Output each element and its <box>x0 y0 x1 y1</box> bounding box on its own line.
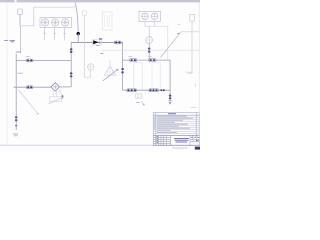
wire: diamond to riser <box>59 86 71 88</box>
valve V6 <box>127 89 137 92</box>
label 2 <box>177 32 180 34</box>
sheet note above table <box>191 107 197 109</box>
wire: upper-left run to top rail <box>20 7 74 26</box>
coupling on left pipe <box>15 116 18 118</box>
fan M5 <box>142 13 149 20</box>
title block designation text <box>174 138 189 142</box>
fan M7 (single circle) <box>146 37 153 44</box>
upper mid component box <box>102 12 112 30</box>
wire: main line y=42.4 <box>71 41 122 43</box>
filter F1 (diamond) <box>51 83 59 91</box>
end riser x=170 <box>169 60 171 101</box>
junction node (black dot) <box>77 32 80 35</box>
couplings on riser 71 <box>70 48 73 50</box>
two-fan block <box>139 11 161 21</box>
label below arrow <box>13 134 18 136</box>
label above V1 <box>26 55 30 57</box>
paper background <box>0 0 200 150</box>
frame right edge <box>198 3 200 112</box>
wire: left branch y=87.6 <box>14 86 52 88</box>
arrow end of left pipe <box>15 125 18 128</box>
label near arrow <box>96 45 99 47</box>
title block small marks <box>157 137 199 143</box>
table row texts <box>157 116 193 132</box>
wire: left supply pipe lower <box>15 54 17 130</box>
valve V7 <box>149 89 159 92</box>
top dark scan band <box>0 0 200 2</box>
check valve (black arrow) <box>93 39 102 45</box>
receiver R2 (right top rect) <box>190 15 195 22</box>
label above V4 <box>129 56 133 58</box>
fan M3 <box>62 19 69 26</box>
compressor block (three fans) <box>40 18 72 28</box>
table header text <box>168 113 176 115</box>
wire: left supply pipe upper <box>19 26 21 54</box>
riser at x=71.2 <box>70 42 72 87</box>
gray rail y=50.2 <box>101 49 200 51</box>
dark corner blob <box>195 147 200 150</box>
sensor mark <box>99 38 102 39</box>
title block <box>153 135 199 145</box>
aux compressor branch <box>83 11 87 15</box>
label left pipe <box>4 41 15 42</box>
fan M2 <box>52 19 59 26</box>
drain unit below filter F1 <box>54 91 57 97</box>
fan M1 <box>42 19 49 26</box>
fan M4 <box>88 64 94 70</box>
tank T1 (top-left rectangle) <box>18 9 23 14</box>
label mid pipe <box>16 51 21 53</box>
parts table <box>153 113 199 136</box>
valve V5 <box>149 59 156 62</box>
valve V8 <box>160 89 162 91</box>
label above V5 <box>148 56 152 58</box>
valve V1 on left branch <box>26 59 33 62</box>
drain unit below lower manifold <box>136 94 142 99</box>
frame left edge <box>6 3 8 145</box>
curved drop line from top rail <box>75 3 78 34</box>
wire: left branch y=60.4 <box>16 59 71 61</box>
wire: dot down to main line <box>77 34 79 43</box>
frame bottom line <box>0 144 200 146</box>
fan M6 <box>151 13 158 20</box>
component box A between manifolds <box>134 63 142 90</box>
exhaust marks right <box>186 72 193 73</box>
adjust arrow through muffler <box>103 70 118 81</box>
valve V2 on lower left branch <box>26 86 32 89</box>
muffler (triangle with hatch) <box>104 66 115 75</box>
right drop pipe <box>191 21 193 73</box>
upper manifold <box>123 59 171 61</box>
diagonal leader right <box>161 32 182 58</box>
label lower pipe <box>18 72 23 74</box>
valve V3 on main line <box>114 41 121 44</box>
component box B between manifolds <box>152 63 160 90</box>
drop from fan M7 <box>148 43 150 60</box>
footer small text <box>172 147 188 149</box>
drops from fans <box>45 27 65 40</box>
leader line to label <box>19 90 38 113</box>
lower manifold <box>123 89 171 91</box>
wire: drop from tank T1 <box>19 14 21 25</box>
valve V4 <box>130 59 137 62</box>
riser at x=122.6 <box>122 42 124 90</box>
merge below two fans <box>145 21 155 26</box>
top right run <box>181 31 199 33</box>
